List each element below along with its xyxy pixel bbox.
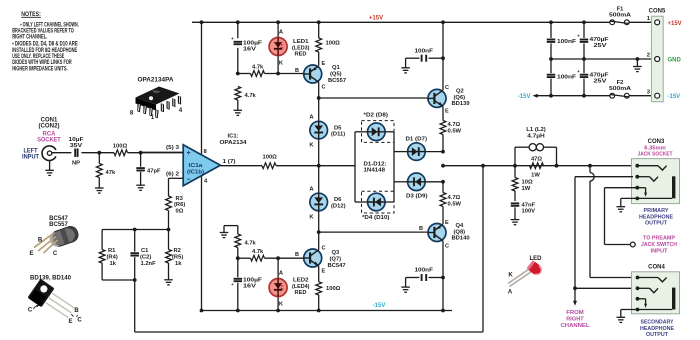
label LED2 A bbox=[279, 270, 284, 276]
svg-text:INPUT: INPUT bbox=[651, 248, 668, 254]
resistor R2 bbox=[166, 230, 172, 280]
svg-text:(Q6): (Q6) bbox=[454, 95, 466, 101]
resistor R3 bbox=[166, 196, 172, 230]
svg-text:+: + bbox=[577, 69, 580, 74]
label 4.7k upper horizontal bbox=[252, 64, 264, 70]
svg-text:1.2nF: 1.2nF bbox=[141, 261, 157, 267]
wire output rail bbox=[443, 165, 637, 167]
resistor 100R output bbox=[262, 163, 355, 169]
svg-text:-15V: -15V bbox=[518, 94, 531, 100]
resistor 4.7R lower bbox=[440, 182, 446, 224]
ground lower bias bbox=[220, 226, 238, 238]
node D3 out bbox=[441, 180, 445, 184]
label F2 bbox=[609, 80, 632, 92]
svg-text:D1-D12:: D1-D12: bbox=[364, 161, 387, 167]
node lower drive bbox=[317, 230, 321, 234]
svg-text:RIGHT CHANNEL.: RIGHT CHANNEL. bbox=[12, 35, 47, 41]
svg-text:1k: 1k bbox=[110, 261, 117, 267]
svg-text:(R4): (R4) bbox=[107, 255, 118, 261]
ground 100nF Q2 bbox=[401, 68, 410, 73]
svg-text:16V: 16V bbox=[243, 47, 256, 53]
connector CON1 RCA socket bbox=[42, 146, 56, 161]
box D2 dashed bbox=[362, 121, 395, 143]
label LED1 bbox=[292, 39, 310, 58]
label op-amp pin1 bbox=[223, 159, 236, 165]
capacitor 100uF lower bbox=[231, 258, 242, 310]
node LED1 top bbox=[276, 72, 280, 76]
diode D2 bbox=[368, 123, 386, 141]
LED LED2 bbox=[269, 279, 287, 297]
svg-text:RED: RED bbox=[295, 290, 307, 296]
svg-text:JACK SOCKET: JACK SOCKET bbox=[638, 152, 673, 158]
wire +15V rail bbox=[192, 21, 655, 23]
svg-text:C: C bbox=[53, 251, 58, 257]
svg-text:R2: R2 bbox=[174, 248, 181, 254]
connector CON5 bbox=[651, 16, 663, 102]
svg-text:PRIMARY: PRIMARY bbox=[644, 208, 669, 214]
contact CON3 sleeve bbox=[621, 176, 674, 200]
svg-text:500mA: 500mA bbox=[609, 86, 632, 92]
capacitor 100nF supply top bbox=[547, 22, 556, 59]
LED LED1 bbox=[269, 38, 287, 56]
svg-text:1N4148: 1N4148 bbox=[364, 168, 386, 174]
svg-text:100Ω: 100Ω bbox=[326, 41, 341, 47]
wire D5-D6 link bbox=[318, 139, 320, 193]
svg-text:R1: R1 bbox=[108, 248, 116, 254]
capacitor 470uF bottom bbox=[577, 59, 588, 96]
resistor 4.7R upper bbox=[440, 107, 446, 152]
wire op-amp output bbox=[220, 165, 262, 167]
label Q1 bbox=[328, 65, 346, 84]
label 470uF top bbox=[590, 37, 610, 49]
svg-text:• ONLY LEFT CHANNEL SHOWN.: • ONLY LEFT CHANNEL SHOWN. bbox=[20, 22, 79, 28]
svg-text:NP: NP bbox=[72, 160, 80, 166]
svg-text:B: B bbox=[74, 308, 79, 314]
svg-text:D5: D5 bbox=[334, 125, 342, 131]
node output mid bbox=[317, 164, 321, 168]
svg-text:(LED3): (LED3) bbox=[292, 45, 310, 51]
svg-text:(R6): (R6) bbox=[174, 202, 185, 208]
svg-text:GND: GND bbox=[668, 58, 682, 64]
wire D3 row bbox=[394, 181, 443, 183]
svg-text:CHANNEL: CHANNEL bbox=[561, 323, 591, 329]
inductor L1 bbox=[515, 144, 557, 166]
wire GND rail bbox=[551, 58, 655, 60]
label Q2 bbox=[452, 89, 471, 108]
label diode types bbox=[364, 161, 387, 173]
svg-text:HIGHER IMPEDANCE UNITS.: HIGHER IMPEDANCE UNITS. bbox=[12, 66, 68, 72]
ground 47k bbox=[95, 188, 104, 193]
label 47R bbox=[531, 157, 542, 179]
svg-text:BC557: BC557 bbox=[328, 78, 346, 84]
label D3 bbox=[406, 193, 428, 199]
label LED1 A bbox=[279, 29, 284, 35]
wire CON4 ring feed bbox=[575, 177, 638, 289]
IC package OPA2134PA bbox=[136, 77, 182, 118]
label R2 bbox=[172, 248, 183, 267]
label -15V rail bbox=[373, 303, 386, 309]
svg-text:35V: 35V bbox=[70, 143, 83, 149]
svg-text:E: E bbox=[445, 109, 449, 115]
contact CON4 switch bbox=[636, 297, 648, 308]
label 100R Q3 bbox=[326, 286, 341, 292]
label PRIMARY OUTPUT bbox=[639, 208, 673, 227]
svg-text:47Ω: 47Ω bbox=[531, 157, 542, 163]
wire LED2 branch bbox=[277, 258, 279, 310]
label Q3 pins bbox=[295, 246, 325, 275]
fuse F2 bbox=[610, 93, 629, 98]
resistor 4.7k lower horizontal bbox=[238, 255, 304, 261]
svg-text:+15V: +15V bbox=[668, 21, 682, 27]
label 4.7R upper bbox=[448, 122, 462, 134]
svg-text:B: B bbox=[295, 252, 299, 258]
svg-text:E: E bbox=[68, 319, 72, 325]
svg-text:D1 (D7): D1 (D7) bbox=[406, 136, 428, 142]
label D5 A bbox=[309, 115, 314, 121]
svg-text:BD139: BD139 bbox=[452, 101, 471, 107]
label SECONDARY OUTPUT bbox=[640, 320, 674, 339]
resistor 100R Q1 bbox=[316, 22, 322, 65]
label 100R Q1 bbox=[326, 41, 341, 47]
label LED1 K bbox=[279, 60, 284, 66]
resistor 4.7k upper vertical bbox=[235, 87, 241, 111]
svg-text:OUTPUT: OUTPUT bbox=[646, 332, 668, 338]
ground RCA bbox=[45, 161, 54, 176]
resistor R1 bbox=[99, 230, 105, 281]
label 47nF bbox=[522, 202, 536, 214]
svg-text:Q3: Q3 bbox=[332, 250, 341, 256]
svg-text:OPA2134: OPA2134 bbox=[220, 140, 248, 146]
label CON3 type bbox=[638, 145, 673, 157]
label DIP pin8 bbox=[130, 111, 134, 117]
svg-text:-15V: -15V bbox=[668, 94, 681, 100]
label 4.7R lower bbox=[448, 195, 462, 207]
label notes bbox=[12, 12, 79, 72]
connector CON4 bbox=[632, 272, 680, 314]
svg-text:HEADPHONE: HEADPHONE bbox=[640, 326, 674, 332]
svg-text:LEFT: LEFT bbox=[24, 148, 38, 154]
svg-text:0.5W: 0.5W bbox=[448, 129, 462, 135]
svg-text:CON4: CON4 bbox=[648, 265, 665, 271]
wire D5 anode bbox=[318, 98, 320, 121]
svg-text:SOCKET: SOCKET bbox=[37, 138, 61, 144]
svg-text:BD140: BD140 bbox=[452, 236, 470, 242]
label op-amp pin4 bbox=[204, 178, 208, 184]
wire RC bottom bbox=[102, 279, 135, 281]
capacitor 47nF bbox=[511, 203, 520, 219]
wire Q2 collector bbox=[442, 22, 444, 90]
label D2 bbox=[364, 112, 389, 118]
capacitor 100nF supply bottom bbox=[547, 59, 556, 96]
resistor 47R bbox=[530, 163, 544, 169]
label D6 bbox=[331, 197, 346, 209]
svg-text:CON5: CON5 bbox=[649, 8, 666, 14]
wire CON4 tip feed bbox=[590, 166, 638, 278]
svg-text:0.5W: 0.5W bbox=[448, 202, 462, 208]
label -15V feed arrow bbox=[518, 94, 538, 101]
svg-text:(C2): (C2) bbox=[140, 255, 151, 261]
svg-text:100V: 100V bbox=[522, 209, 536, 215]
wire CON3 ring feed bbox=[575, 176, 637, 178]
node right channel bbox=[573, 286, 577, 290]
svg-text:OUTPUT: OUTPUT bbox=[645, 221, 667, 227]
wire RCA to cap bbox=[52, 152, 72, 154]
svg-text:FROM: FROM bbox=[566, 310, 584, 316]
wire Q1 collector bbox=[318, 82, 320, 98]
label BC547 pins bbox=[29, 238, 57, 258]
ground 47pF bbox=[136, 185, 145, 190]
svg-text:(CON2): (CON2) bbox=[39, 124, 60, 130]
label CON1 bbox=[39, 117, 60, 129]
label Q1 pins bbox=[295, 61, 325, 91]
node RC bottom bbox=[133, 278, 137, 282]
svg-text:LED: LED bbox=[530, 256, 543, 262]
label Q3 bbox=[328, 250, 346, 269]
label RCA SOCKET bbox=[37, 131, 61, 143]
svg-text:BRACKETED VALUES REFER TO: BRACKETED VALUES REFER TO bbox=[12, 29, 74, 35]
svg-text:E: E bbox=[322, 61, 326, 67]
node upper drive bbox=[317, 96, 321, 100]
svg-text:D6: D6 bbox=[334, 197, 342, 203]
svg-text:C1: C1 bbox=[141, 248, 149, 254]
resistor 47k input bbox=[96, 153, 102, 188]
capacitor C1 bbox=[130, 230, 139, 281]
svg-text:(Q5): (Q5) bbox=[330, 72, 342, 78]
svg-text:100nF: 100nF bbox=[415, 268, 434, 274]
label R1 bbox=[107, 248, 118, 267]
svg-text:C: C bbox=[28, 308, 33, 314]
svg-text:CON1: CON1 bbox=[41, 117, 58, 123]
svg-text:(5) 3: (5) 3 bbox=[166, 145, 180, 151]
label 4.7k lower vertical bbox=[245, 240, 257, 246]
label D5 bbox=[331, 125, 345, 137]
svg-text:A: A bbox=[508, 290, 513, 296]
svg-text:100nF: 100nF bbox=[557, 39, 577, 45]
label 100R output bbox=[263, 155, 278, 161]
wire D2 row bbox=[355, 131, 394, 133]
svg-text:100Ω: 100Ω bbox=[113, 144, 128, 150]
svg-text:(R5): (R5) bbox=[172, 255, 183, 261]
wire op-amp pin4 supply bbox=[201, 176, 203, 311]
label C1 bbox=[140, 248, 156, 267]
svg-text:DIODES WITH WIRE LINKS FOR: DIODES WITH WIRE LINKS FOR bbox=[12, 60, 72, 66]
svg-text:R3: R3 bbox=[176, 196, 184, 202]
wire diode column right lower bbox=[393, 152, 395, 202]
capacitor 100uF upper bbox=[231, 22, 242, 73]
svg-text:25V: 25V bbox=[594, 78, 607, 84]
svg-text:K: K bbox=[508, 273, 513, 279]
svg-text:1W: 1W bbox=[522, 186, 531, 192]
svg-text:Q1: Q1 bbox=[332, 65, 341, 71]
node -15V rail junctions bbox=[200, 309, 445, 313]
node GND junctions bbox=[549, 57, 639, 61]
transistor Q4 bbox=[428, 224, 446, 242]
svg-text:C: C bbox=[322, 246, 326, 252]
ground 47nF bbox=[511, 220, 520, 225]
ground GND rail bbox=[633, 59, 642, 72]
label 100uF upper bbox=[243, 41, 263, 53]
label TO PREAMP bbox=[641, 236, 677, 255]
label IC1 bbox=[220, 134, 248, 146]
svg-text:E: E bbox=[445, 220, 449, 226]
transistor Q1 bbox=[304, 65, 322, 83]
label BD139 pins bbox=[28, 305, 83, 325]
svg-text:IC1a: IC1a bbox=[189, 163, 204, 169]
svg-text:4.7k: 4.7k bbox=[252, 249, 264, 255]
svg-text:C: C bbox=[445, 85, 449, 91]
svg-text:-15V: -15V bbox=[373, 303, 386, 309]
wire diode column right upper bbox=[393, 132, 395, 152]
svg-text:+15V: +15V bbox=[369, 15, 383, 21]
label 470uF bottom bbox=[590, 72, 610, 84]
label FROM RIGHT CHANNEL bbox=[561, 310, 591, 329]
svg-text:4.7Ω: 4.7Ω bbox=[448, 195, 461, 201]
svg-text:LED1: LED1 bbox=[293, 39, 309, 45]
svg-text:100Ω: 100Ω bbox=[263, 155, 278, 161]
svg-text:TO PREAMP: TO PREAMP bbox=[643, 236, 675, 242]
label D4 bbox=[362, 215, 390, 221]
wire op-amp pin8 supply bbox=[201, 22, 203, 154]
svg-text:B: B bbox=[295, 68, 299, 74]
svg-text:(D12): (D12) bbox=[331, 204, 346, 210]
label 4.7k lower horizontal bbox=[252, 249, 264, 255]
label 100R input bbox=[113, 144, 128, 150]
wire D6 cathode bbox=[318, 211, 320, 250]
connector CON3 bbox=[632, 159, 680, 204]
svg-text:100Ω: 100Ω bbox=[326, 286, 341, 292]
capacitor 470uF top bbox=[577, 22, 588, 59]
label +15V pin bbox=[668, 21, 682, 27]
svg-text:BC547: BC547 bbox=[49, 216, 68, 222]
svg-text:47k: 47k bbox=[106, 170, 116, 176]
wire D1 row bbox=[394, 151, 443, 153]
diode D6 bbox=[310, 193, 328, 211]
pin CON5-2 bbox=[647, 53, 660, 62]
svg-text:INPUT: INPUT bbox=[22, 155, 39, 161]
svg-text:0Ω: 0Ω bbox=[176, 208, 184, 214]
capacitor 47pF bbox=[136, 153, 145, 186]
svg-text:4.7k: 4.7k bbox=[252, 64, 264, 70]
svg-text:C: C bbox=[77, 317, 82, 323]
svg-text:25V: 25V bbox=[594, 43, 607, 49]
ground upper bias bbox=[234, 110, 243, 115]
node lower bias bbox=[236, 256, 240, 260]
svg-text:INSTALLED FOR 8Ω HEADPHONE: INSTALLED FOR 8Ω HEADPHONE bbox=[12, 48, 77, 54]
label CON4 bbox=[648, 265, 665, 271]
resistor 4.7k lower vertical bbox=[235, 234, 241, 258]
svg-text:47nF: 47nF bbox=[522, 202, 536, 208]
label op-amp pin2 bbox=[166, 172, 179, 178]
svg-text:(D11): (D11) bbox=[331, 132, 345, 138]
diode D5 bbox=[310, 121, 328, 139]
label CON3 bbox=[648, 139, 665, 145]
label -15V pin bbox=[668, 94, 681, 100]
svg-text:100nF: 100nF bbox=[415, 48, 434, 54]
label Q4 pins bbox=[419, 220, 449, 250]
svg-text:4.7k: 4.7k bbox=[245, 93, 257, 99]
pin preamp bbox=[630, 242, 635, 247]
transistor pictogram BC547 bbox=[34, 216, 80, 253]
svg-text:+: + bbox=[231, 282, 234, 287]
svg-text:JACK SWITCH: JACK SWITCH bbox=[641, 242, 677, 248]
svg-text:*D2 (D8): *D2 (D8) bbox=[364, 112, 389, 118]
svg-text:47pF: 47pF bbox=[147, 168, 161, 174]
LED pictogram bbox=[508, 256, 544, 287]
box D4 dashed bbox=[362, 191, 395, 213]
wire feedback bbox=[135, 166, 483, 332]
contact CON3 switch bbox=[635, 186, 647, 197]
ground 100nF Q4 bbox=[401, 287, 410, 292]
wire right channel arrow bbox=[573, 288, 577, 306]
svg-text:C: C bbox=[322, 85, 326, 91]
label Q2 pins bbox=[445, 85, 449, 115]
transistor Q2 bbox=[428, 89, 446, 107]
wire upper drive bus bbox=[319, 97, 428, 99]
label 100nF supply top bbox=[557, 39, 577, 45]
svg-text:IC1:: IC1: bbox=[228, 134, 239, 140]
wire RC top bbox=[102, 229, 168, 231]
contact CON3 tip bbox=[635, 164, 666, 170]
svg-text:Q4: Q4 bbox=[456, 223, 465, 229]
label R3 bbox=[174, 196, 185, 215]
label LED pins bbox=[508, 273, 514, 296]
label L1 bbox=[526, 127, 546, 139]
svg-text:(Q8): (Q8) bbox=[454, 229, 466, 235]
svg-text:100nF: 100nF bbox=[557, 74, 577, 80]
svg-text:1k: 1k bbox=[175, 261, 182, 267]
svg-text:E: E bbox=[29, 251, 33, 257]
node Q2 100nF bbox=[441, 56, 445, 60]
label CON5 bbox=[649, 8, 666, 14]
label GND pin bbox=[668, 58, 682, 64]
svg-text:E: E bbox=[322, 269, 326, 275]
svg-text:1 (7): 1 (7) bbox=[223, 159, 236, 165]
contact CON4 ring bbox=[636, 286, 659, 292]
contact CON4 sleeve bbox=[621, 288, 674, 312]
diode D3 bbox=[408, 173, 426, 191]
svg-text:1W: 1W bbox=[531, 173, 540, 179]
svg-text:L1 (L2): L1 (L2) bbox=[526, 127, 546, 133]
wire op-amp -input bbox=[169, 178, 184, 196]
svg-text:RIGHT: RIGHT bbox=[566, 317, 584, 323]
label DIP pin4 bbox=[179, 108, 183, 114]
svg-text:*D4 (D10): *D4 (D10) bbox=[362, 215, 390, 221]
svg-text:6.35mm: 6.35mm bbox=[644, 145, 666, 151]
op-amp IC1a bbox=[183, 145, 220, 186]
label Q4 bbox=[452, 223, 470, 242]
wire lower drive bus bbox=[319, 231, 428, 233]
node D1 out bbox=[441, 150, 445, 154]
wire cap to R bbox=[81, 152, 114, 154]
svg-text:HEADPHONE: HEADPHONE bbox=[639, 214, 673, 220]
svg-text:4.7k: 4.7k bbox=[245, 240, 257, 246]
label 47pF bbox=[147, 168, 161, 174]
svg-text:BD139, BD140: BD139, BD140 bbox=[30, 275, 72, 281]
svg-text:2: 2 bbox=[647, 53, 650, 59]
node input 47pF bbox=[139, 151, 143, 155]
svg-text:RED: RED bbox=[295, 52, 307, 58]
svg-text:10Ω: 10Ω bbox=[522, 180, 533, 186]
label 4.7k upper vertical bbox=[245, 93, 257, 99]
svg-text:USE ONLY. REPLACE THESE: USE ONLY. REPLACE THESE bbox=[12, 54, 64, 60]
svg-text:LED2: LED2 bbox=[293, 278, 309, 284]
wire D4 row bbox=[355, 201, 394, 203]
capacitor 10uF input bbox=[69, 137, 84, 167]
diode D4 bbox=[368, 193, 386, 211]
label F1 bbox=[609, 7, 632, 19]
ground CON3 bbox=[617, 198, 626, 211]
label D5 K bbox=[309, 143, 314, 149]
